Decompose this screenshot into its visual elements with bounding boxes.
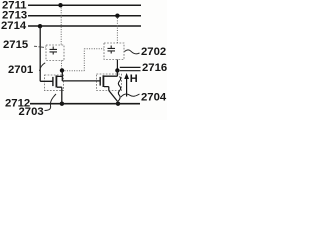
svg-text:2716: 2716	[142, 62, 167, 74]
svg-text:2702: 2702	[141, 46, 166, 58]
svg-text:2714: 2714	[1, 20, 27, 32]
svg-text:2703: 2703	[19, 106, 44, 118]
svg-text:H: H	[130, 73, 138, 85]
svg-text:2715: 2715	[3, 39, 28, 51]
svg-text:2704: 2704	[141, 92, 167, 104]
svg-text:2701: 2701	[8, 64, 33, 76]
